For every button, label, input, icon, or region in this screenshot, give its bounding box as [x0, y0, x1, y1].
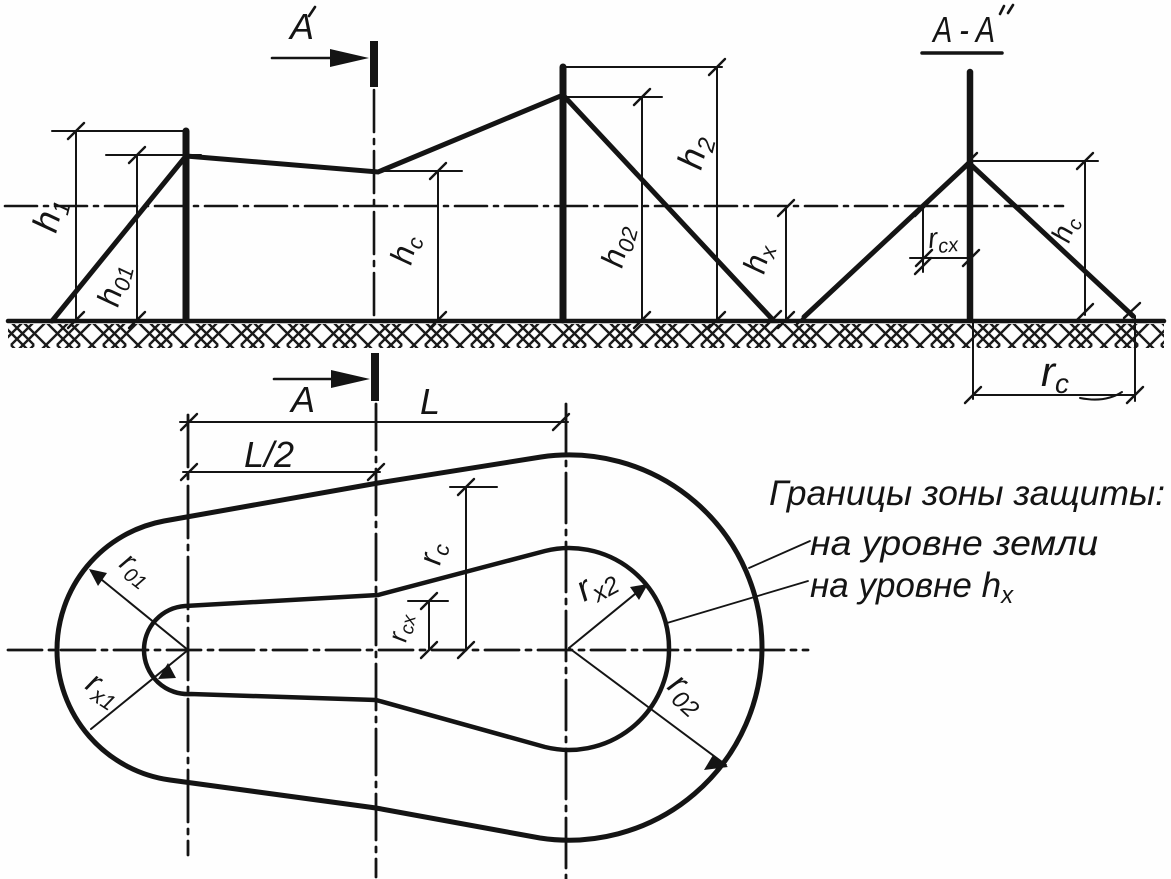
tick h02 bottom [634, 312, 650, 328]
L/2 dimension line [183, 471, 380, 473]
hc dimension line [437, 171, 439, 320]
tick h2 top [709, 59, 725, 75]
tick h01 top [129, 147, 145, 163]
legend text line 3 [810, 566, 1014, 609]
legend leader line 1 (ground level) [749, 541, 810, 568]
boundary sag between rods [186, 95, 563, 172]
plan centerline vertical middle [375, 404, 378, 877]
inner protection boundary (hx level) [144, 548, 669, 750]
title A-A'' [931, 9, 995, 50]
accent on A [309, 7, 315, 16]
h1 extension line (rod1 top) [52, 130, 188, 132]
rod mast 1 [183, 131, 190, 320]
rod mast 2 [560, 67, 567, 320]
label h1 [24, 194, 77, 238]
h01 extension line [106, 154, 201, 156]
L dimension line [180, 421, 568, 423]
tick rc left [965, 387, 981, 403]
tick left foot [797, 309, 812, 324]
label h02 [594, 221, 643, 272]
label L/2 [244, 434, 294, 475]
plan centerline vertical left [187, 415, 190, 855]
label rx2 [569, 555, 625, 614]
rc plan dimension line [465, 487, 467, 650]
tick L/2 right [368, 464, 384, 480]
ground hatching band [8, 324, 1164, 348]
elevation centerline between rods (dash-dot) [373, 90, 376, 320]
label r01 [111, 546, 159, 595]
h02 extension line [562, 96, 662, 98]
svg-text:на уровне hx: на уровне hx [810, 566, 1014, 609]
r01 radius arrow [91, 571, 188, 650]
label hx [736, 239, 782, 278]
label rx1 [78, 664, 128, 716]
tick apex ext right [1077, 153, 1093, 169]
r02 radius arrow [569, 648, 726, 765]
tick rc plan bottom [458, 642, 474, 658]
svg-text:A: A [289, 379, 315, 420]
tick right slant end [1124, 303, 1140, 318]
hx level dash-dot horizontal line [5, 205, 1063, 208]
label A bottom [289, 379, 315, 420]
protection boundary slant rod2 right [563, 95, 773, 320]
label rc section [1041, 348, 1069, 399]
rx2 radius arrow [569, 585, 646, 648]
section marker bottom: arrow [274, 378, 340, 381]
label r02 [657, 665, 715, 723]
double prime [1000, 5, 1013, 14]
h1 dimension line [75, 131, 77, 320]
tick hx top [778, 200, 794, 216]
rcx crossing extension vertical [922, 208, 924, 272]
rcx dimension line section [910, 257, 968, 259]
label h2 [669, 131, 722, 175]
tick L left [181, 414, 197, 430]
hx dimension line [785, 208, 787, 320]
tick hx bottom [778, 312, 794, 328]
section cone left slant [804, 163, 969, 317]
svg-text:Границы зоны защиты:: Границы зоны защиты: [769, 474, 1165, 513]
label rc plan [411, 540, 454, 568]
apex extension line [971, 160, 1098, 162]
tick rcx plan top [421, 593, 437, 609]
section cone right slant [969, 163, 1133, 316]
tick rc right [1127, 387, 1143, 403]
h01 dimension line [136, 155, 138, 320]
rcx plan extension [408, 600, 448, 602]
tick rc plan top [458, 479, 474, 495]
label hc elevation [383, 231, 429, 269]
label A top [288, 6, 314, 47]
tick h01 bottom [129, 312, 145, 328]
section marker top: bar [370, 41, 378, 87]
h2 dimension line [716, 67, 718, 320]
legend leader line 2 (hx level) [667, 581, 808, 623]
tick apex [961, 153, 977, 169]
protection boundary slant rod1 [52, 156, 186, 321]
tick rcx crossing [915, 200, 931, 216]
label rcx plan [382, 610, 421, 645]
plan centerline vertical right [565, 404, 568, 879]
tick hc top [430, 163, 446, 179]
svg-text:A - A: A - A [931, 9, 995, 50]
rc flourish [1080, 392, 1122, 400]
rc dimension line section [973, 394, 1135, 396]
legend text line 2 [810, 524, 1098, 563]
svg-text:на уровне земли: на уровне земли [810, 524, 1098, 563]
legend text line 1 [769, 474, 1165, 513]
tick rcx ext bottom [915, 258, 931, 274]
tick at slant ground [765, 311, 781, 327]
svg-text:L/2: L/2 [244, 434, 294, 475]
tick rcx dim left [916, 250, 932, 266]
rc below-ground right extension [1134, 316, 1136, 401]
tick h1 top [68, 123, 84, 139]
plan centerline horizontal [8, 649, 808, 652]
hc extension from sag [380, 170, 462, 172]
tick rcx dim right [963, 250, 979, 266]
tick h02 top [634, 89, 650, 105]
outer protection boundary (ground level) [57, 455, 762, 840]
tick hc bottom [430, 312, 446, 328]
h02 dimension line [641, 97, 643, 320]
h2 extension line (rod2 top) [561, 66, 722, 68]
ground line [8, 319, 1164, 324]
label hc section [1045, 212, 1087, 247]
tick L/2 left [181, 464, 197, 480]
tick L right [553, 414, 569, 430]
label L [420, 381, 440, 422]
rcx plan dimension line [428, 601, 430, 650]
section mast [967, 72, 974, 319]
label rcx section [926, 220, 960, 259]
tick h2 bottom [709, 312, 725, 328]
tick h1 bottom [68, 312, 84, 328]
period after zemli [1091, 551, 1096, 556]
rc below-ground left extension (mast) [972, 321, 974, 399]
title underline [922, 51, 1002, 55]
label h01 [90, 260, 139, 311]
section marker bottom: bar [371, 353, 379, 401]
section marker top: arrow [272, 57, 340, 60]
tick hc bottom section [1077, 304, 1093, 320]
tick rcx plan bottom [421, 642, 437, 658]
hc dimension line section [1084, 161, 1086, 315]
svg-text:L: L [420, 381, 440, 422]
rx1 radius arrow [91, 650, 188, 729]
rc plan extension line [450, 486, 497, 488]
